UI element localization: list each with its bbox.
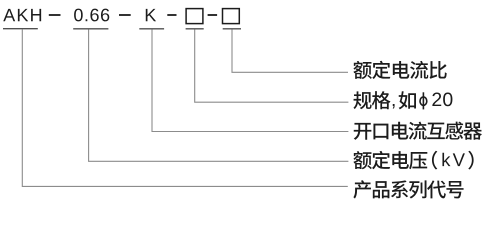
connector line from 0.66 to row 4 <box>89 29 349 161</box>
connector line from K to row 3 <box>152 29 348 131</box>
underline under box 2 <box>223 28 241 30</box>
placeholder box 2 <box>223 9 240 24</box>
placeholder box 1 <box>186 9 203 24</box>
label row 4: rated voltage (kV) <box>353 151 371 169</box>
label row 2: specification, e.g. dia 20 <box>353 91 371 109</box>
dash separator 2 <box>119 14 131 16</box>
type text K <box>146 9 156 21</box>
dash separator 3 <box>167 14 176 16</box>
dash separator 1 <box>49 14 61 16</box>
connector line from box 2 to row 1 <box>232 29 348 72</box>
underline under AKH <box>3 28 38 30</box>
label row 5: product series code <box>353 180 371 198</box>
connector line from box 1 to row 2 <box>195 29 349 102</box>
voltage text 0.66 <box>74 9 83 22</box>
underline under K <box>139 28 164 30</box>
underline under box 1 <box>186 28 204 30</box>
model series text AKH <box>3 9 15 21</box>
underline under 0.66 <box>73 28 108 30</box>
label row 1: rated current ratio <box>353 61 371 79</box>
label row 3: split-core current transformer <box>354 123 372 140</box>
connector line from AKH to row 5 <box>22 29 348 186</box>
dash separator 4 <box>208 14 218 16</box>
